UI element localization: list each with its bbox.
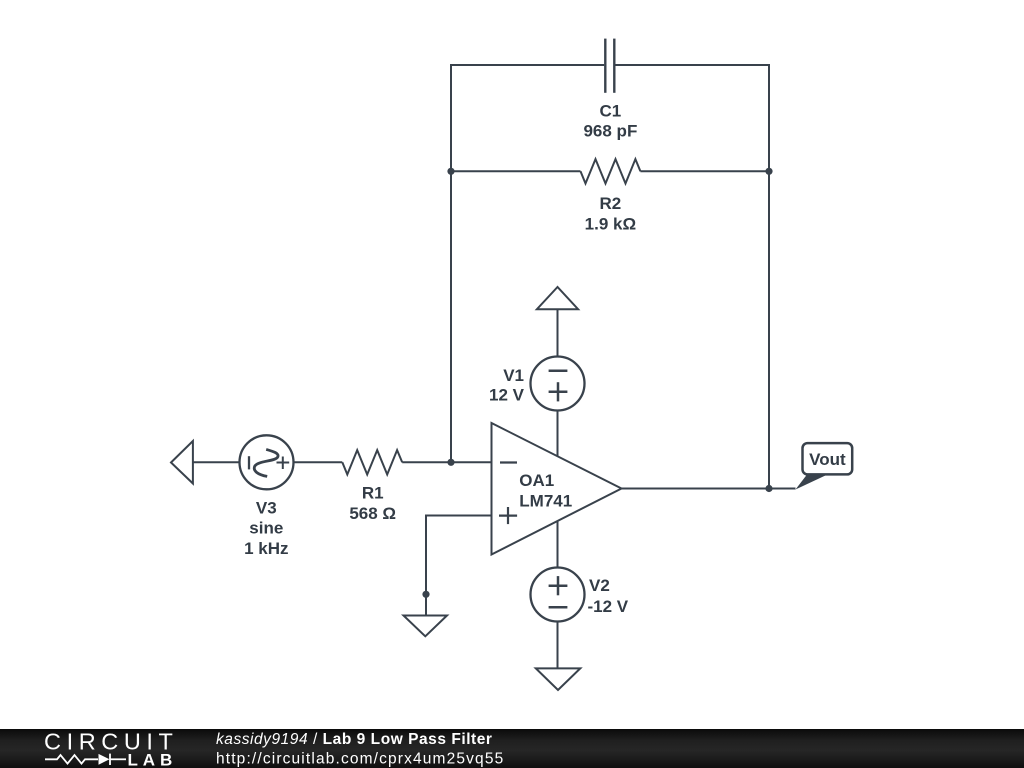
wire Vplus to V1 <box>557 309 559 356</box>
svg-text:C1: C1 <box>600 102 622 121</box>
svg-text:LAB: LAB <box>128 750 178 768</box>
footer bar <box>0 729 1024 768</box>
junction node R2 right <box>765 168 772 175</box>
svg-text:R2: R2 <box>600 194 622 213</box>
ground stem lower left <box>425 594 427 615</box>
V2 minus mark <box>549 606 568 609</box>
junction node ground lower left <box>422 591 429 598</box>
svg-text:1 kHz: 1 kHz <box>244 539 288 558</box>
op-amp minus input mark <box>500 461 517 463</box>
wire V1 to op-amp <box>557 411 559 457</box>
wire R1 to node A <box>402 461 491 463</box>
input terminal arrow <box>171 441 193 484</box>
svg-text:968 pF: 968 pF <box>583 122 637 141</box>
logo resistor-diode glyph <box>45 754 126 765</box>
V2 plus mark <box>549 576 568 595</box>
svg-text:R1: R1 <box>362 484 384 503</box>
V3 minus electrode <box>248 456 250 469</box>
svg-text:sine: sine <box>249 519 283 538</box>
V3 sine squiggle <box>254 449 278 476</box>
wire R2 right <box>640 170 769 172</box>
wire plus input horizontal <box>426 516 492 595</box>
wire top left horizontal <box>451 65 604 462</box>
wire output <box>622 488 796 490</box>
V1 plus mark <box>549 382 568 401</box>
svg-text:V1: V1 <box>503 366 524 385</box>
wire V2 to ground <box>557 622 559 669</box>
V+ power triangle <box>537 287 578 309</box>
junction node output <box>765 485 772 492</box>
svg-text:OA1: OA1 <box>519 471 554 490</box>
wire R2 left <box>451 170 581 172</box>
svg-text:568 Ω: 568 Ω <box>349 504 396 523</box>
svg-text:V2: V2 <box>589 576 610 595</box>
svg-text:Vout: Vout <box>809 450 846 469</box>
V1 minus mark <box>549 370 568 373</box>
V3 plus mark <box>277 457 290 470</box>
op-amp plus input mark <box>499 507 517 524</box>
junction node R2 left <box>447 168 454 175</box>
wire op-amp to V2 <box>557 521 559 568</box>
svg-text:1.9 kΩ: 1.9 kΩ <box>585 215 636 234</box>
wire top right horizontal <box>615 65 769 489</box>
Vout flag tail <box>796 475 828 490</box>
junction node minus input <box>447 459 454 466</box>
svg-text:-12 V: -12 V <box>588 597 629 616</box>
wire terminal to V3 <box>193 461 240 463</box>
Vout flag box <box>803 443 853 474</box>
svg-text:http://circuitlab.com/cprx4um2: http://circuitlab.com/cprx4um25vq55 <box>216 750 504 767</box>
source V2 circle <box>531 568 585 622</box>
ground symbol under V2 <box>536 668 581 690</box>
ground symbol lower left <box>404 616 448 637</box>
op-amp OA1 triangle <box>492 423 622 555</box>
source V3 circle <box>240 435 294 489</box>
svg-text:LM741: LM741 <box>519 492 572 511</box>
capacitor C1 <box>605 39 614 93</box>
svg-text:V3: V3 <box>256 498 277 517</box>
wire V3 to R1 <box>294 461 343 463</box>
resistor R2 <box>581 159 641 183</box>
resistor R1 <box>342 450 402 474</box>
source V1 circle <box>531 357 585 411</box>
svg-text:kassidy9194 / Lab 9 Low Pass F: kassidy9194 / Lab 9 Low Pass Filter <box>216 731 493 748</box>
svg-text:12 V: 12 V <box>489 386 525 405</box>
